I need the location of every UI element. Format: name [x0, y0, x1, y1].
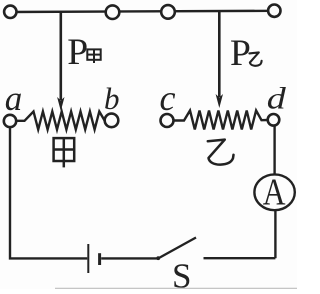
label P乙	[230, 33, 262, 74]
label P甲	[67, 32, 100, 73]
wiper arrow P乙	[216, 12, 223, 109]
terminal T3 top-middle-right	[161, 5, 175, 19]
terminal T1 top-left	[4, 6, 16, 18]
svg-text:P: P	[230, 33, 251, 74]
ammeter A	[254, 171, 294, 214]
scan artifact line bottom	[55, 287, 297, 289]
svg-text:b: b	[104, 81, 120, 116]
label 乙	[208, 140, 234, 165]
wire ammeter to terminal d	[273, 126, 275, 175]
switch S blade	[158, 238, 196, 259]
svg-text:a: a	[5, 79, 23, 118]
terminal b	[105, 114, 119, 128]
wire top bus	[10, 11, 274, 12]
wiper arrow P甲	[57, 12, 64, 112]
battery long plate	[87, 244, 89, 273]
wire left side	[10, 127, 87, 258]
resistor 乙 zigzag	[174, 111, 268, 130]
switch pivot dot	[156, 256, 160, 260]
wire right side lower	[274, 210, 276, 258]
terminal T2 top-middle-left	[106, 5, 120, 19]
svg-text:d: d	[267, 81, 287, 116]
terminal c	[161, 114, 174, 127]
svg-text:A: A	[263, 171, 286, 214]
label 甲	[54, 138, 75, 167]
terminal a	[4, 115, 16, 127]
terminal T4 top-right	[268, 5, 280, 17]
battery short plate	[98, 253, 101, 265]
terminal d	[268, 114, 280, 126]
wire battery to switch	[101, 257, 158, 259]
svg-text:S: S	[172, 257, 191, 290]
resistor 甲 zigzag	[17, 112, 105, 130]
svg-text:P: P	[67, 32, 88, 73]
wire switch to right corner	[204, 257, 276, 259]
svg-text:c: c	[160, 78, 176, 118]
